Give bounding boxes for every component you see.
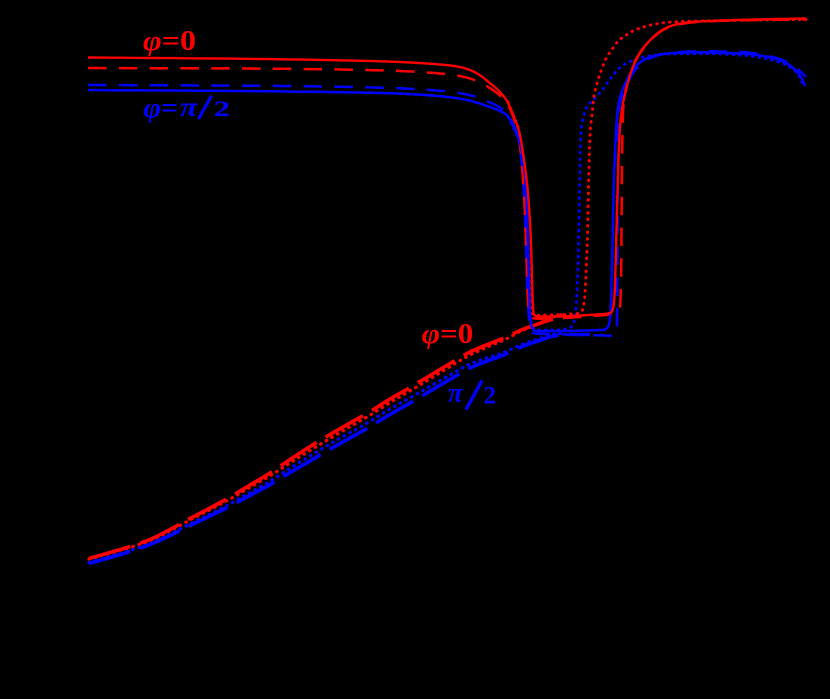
red solid curve (phi=0 upper branch) [88,19,806,317]
svg-text:π: π [180,92,199,122]
red rising dotted curve (phi=0 lower branch) [89,314,565,559]
blue rising dotted curve (pi/2 lower branch) [89,333,565,563]
blue solid curve (phi=pi/2 upper branch) [88,52,805,331]
svg-text:φ=0: φ=0 [422,318,474,350]
svg-text:φ=0: φ=0 [143,26,196,57]
red dotted curve (phi=0 upper branch) [508,20,806,316]
svg-text:φ=: φ= [144,93,179,124]
svg-text:2: 2 [484,383,497,410]
blue dashed curve (phi=pi/2 upper branch) [88,51,806,335]
blue rising dashed curve (pi/2 lower branch) [89,334,590,563]
svg-text:2: 2 [214,96,231,121]
red dashed curve (phi=0 upper branch) [88,20,806,319]
blue dotted curve (phi=pi/2 upper branch) [508,54,803,331]
red rising dashed curve (phi=0 lower branch) [89,318,565,559]
svg-text:π: π [448,378,464,408]
